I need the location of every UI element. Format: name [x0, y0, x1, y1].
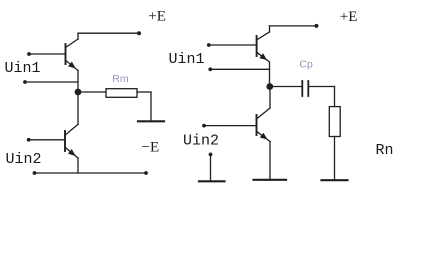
wire capacitor to resistor corner — [308, 86, 334, 88]
resistor Rn — [329, 107, 340, 137]
wire emitter Q1 vertical — [77, 71, 79, 93]
node Uin2 base terminal right — [202, 124, 206, 128]
node bottom rail right terminal — [144, 171, 148, 175]
node Uin2 lower terminal right — [209, 153, 213, 157]
svg-text:−E: −E — [142, 140, 160, 156]
wire collector Q3 jog — [269, 26, 271, 32]
wire resistor Rm to ground stem — [137, 91, 151, 93]
capacitor Cp — [302, 81, 308, 96]
svg-text:+E: +E — [340, 9, 358, 25]
svg-text:Uin1: Uin1 — [169, 51, 205, 68]
transistor Q1 — [66, 39, 79, 71]
wire Uin1 bottom terminal to emitter line — [25, 81, 78, 83]
svg-text:Uin2: Uin2 — [183, 133, 219, 150]
wire Uin1 top terminal to base Q1 — [29, 53, 66, 55]
transistor Q4 — [257, 108, 271, 142]
wire down to resistor Rn — [334, 87, 336, 107]
svg-text:Rn: Rn — [376, 142, 394, 159]
resistor Rm — [106, 89, 137, 98]
wire +E rail right — [270, 25, 317, 27]
wire Uin1 bottom terminal to emitter line right — [210, 68, 269, 70]
wire junction to resistor Rm — [78, 91, 106, 93]
transistor Q2 — [65, 124, 78, 158]
node junction A (emitters) — [75, 89, 82, 96]
transistor Q3 — [257, 32, 270, 62]
svg-text:+E: +E — [148, 9, 166, 25]
wire collector Q4 to junction B — [269, 87, 271, 109]
node Uin2 base terminal — [27, 138, 31, 142]
node Uin1 bottom terminal right — [208, 67, 212, 71]
wire emitter Q4 to ground — [269, 142, 271, 180]
node +E terminal right — [314, 24, 318, 28]
wire bottom rail left — [35, 172, 147, 174]
node Uin1 bottom terminal — [23, 80, 27, 84]
wire emitter Q3 vertical — [269, 62, 271, 87]
wire Uin1 top terminal to base Q3 — [209, 44, 257, 46]
ground left (-E) — [138, 120, 164, 122]
wire emitter Q2 vertical — [77, 158, 79, 173]
ground under Uin2 terminal — [199, 180, 225, 182]
svg-text:Uin1: Uin1 — [5, 60, 41, 77]
node Uin1 top terminal right — [207, 43, 211, 47]
wire Uin2 terminal to base Q2 — [29, 139, 65, 141]
wire resistor Rn to ground — [334, 137, 336, 180]
node +E terminal left — [137, 31, 141, 35]
node Uin1 top terminal — [27, 52, 31, 56]
ground under Rn — [322, 179, 348, 181]
svg-text:Rm: Rm — [112, 73, 129, 85]
wire Uin2 lower terminal to ground — [210, 154, 212, 180]
wire collector Q2 to junction A — [77, 92, 79, 124]
svg-text:Cp: Cp — [299, 59, 313, 71]
wire collector Q1 jog — [77, 33, 79, 39]
wire ground stem left — [150, 92, 152, 120]
wire Uin2 terminal to base Q4 — [204, 125, 257, 127]
svg-text:Uin2: Uin2 — [6, 151, 42, 168]
node bottom rail left terminal — [33, 171, 37, 175]
wire junction B to capacitor Cp — [270, 86, 303, 88]
wire +E rail left — [78, 32, 139, 34]
ground under Q4 emitter — [254, 179, 287, 181]
node junction B (emitters right) — [266, 83, 273, 90]
